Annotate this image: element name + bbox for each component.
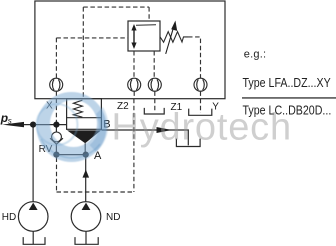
svg-text:ND: ND bbox=[106, 212, 120, 223]
svg-text:Hydrotech: Hydrotech bbox=[112, 107, 292, 149]
svg-text:s: s bbox=[8, 117, 12, 126]
svg-text:HD: HD bbox=[2, 212, 16, 223]
svg-text:e.g.:: e.g.: bbox=[244, 49, 266, 61]
svg-text:Type LFA..DZ...XY: Type LFA..DZ...XY bbox=[243, 75, 331, 90]
